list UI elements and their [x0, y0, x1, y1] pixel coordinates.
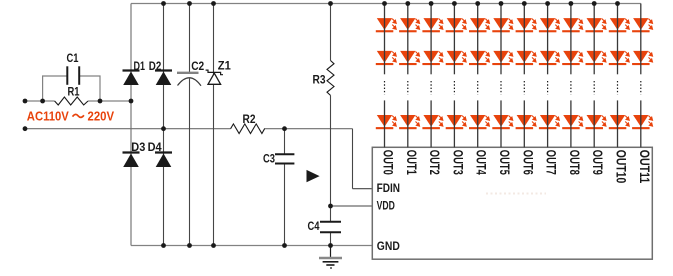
svg-text:Z1: Z1	[218, 61, 232, 73]
svg-text:OUT10: OUT10	[614, 150, 629, 184]
junction top-D2	[161, 1, 166, 6]
LED D12c col 11 row 2	[632, 115, 652, 129]
junction top LED col 3	[452, 1, 457, 6]
LED D11b col 10 row 1	[609, 51, 629, 65]
svg-text:OUT11: OUT11	[637, 150, 652, 184]
capacitor C4	[320, 221, 341, 223]
LED D1b col 0 row 1	[376, 51, 396, 65]
svg-text:AC110V: AC110V	[27, 109, 69, 124]
wire C1 parallel branch	[43, 76, 100, 101]
LED D10b col 9 row 1	[586, 51, 606, 65]
LED column 10 wire	[617, 4, 619, 75]
LED D10c col 9 row 2	[586, 115, 606, 129]
LED column 3 wire	[453, 4, 455, 75]
terminal AC lower	[23, 126, 28, 131]
svg-text:OUT9: OUT9	[590, 150, 605, 175]
LED D7b col 6 row 1	[516, 51, 536, 65]
LED D2c col 1 row 2	[399, 115, 419, 129]
wire bottom bus / GND net	[131, 245, 372, 247]
LED D1c col 0 row 2	[376, 115, 396, 129]
IC U1 body	[372, 147, 652, 259]
LED column 9 wire	[593, 4, 595, 75]
terminal AC upper	[23, 99, 28, 104]
LED D11a col 10 row 0	[609, 18, 629, 32]
svg-text:OUT3: OUT3	[450, 150, 465, 175]
svg-text:OUT7: OUT7	[544, 150, 559, 175]
wire D2-D4 branch	[163, 4, 165, 246]
LED D5a col 4 row 0	[469, 18, 489, 32]
wire C2 branch	[189, 4, 191, 73]
wire C3 branch	[284, 129, 286, 155]
marker arrow (right-pointing triangle)	[307, 170, 320, 182]
junction top LED col 1	[405, 1, 410, 6]
diode D3	[123, 151, 140, 153]
svg-text:R3: R3	[313, 75, 326, 87]
LED D1a col 0 row 0	[376, 18, 396, 32]
junction top-Z1	[211, 1, 216, 6]
LED D9c col 8 row 2	[562, 115, 582, 129]
label tilde	[73, 114, 84, 117]
capacitor C1	[66, 66, 68, 85]
svg-text:GND: GND	[377, 239, 400, 253]
junction top-R3	[328, 1, 333, 6]
junction top LED col 7	[545, 1, 550, 6]
svg-text:R1: R1	[68, 87, 80, 99]
zener diode Z1	[206, 70, 223, 75]
svg-text:C2: C2	[191, 61, 204, 73]
junction top LED col 5	[499, 1, 504, 6]
svg-text:D3: D3	[131, 142, 145, 154]
junction top LED col 8	[569, 1, 574, 6]
LED column 5 wire	[500, 4, 502, 75]
junction top LED col 2	[429, 1, 434, 6]
LED D5b col 4 row 1	[469, 51, 489, 65]
wire left bus	[130, 4, 132, 246]
junction bottom-GND	[328, 243, 333, 248]
svg-text:C3: C3	[263, 154, 275, 166]
LED column 6 wire	[523, 4, 525, 75]
LED D12a col 11 row 0	[632, 18, 652, 32]
LED D6c col 5 row 2	[492, 115, 512, 129]
LED D10a col 9 row 0	[586, 18, 606, 32]
svg-text:C4: C4	[308, 221, 320, 233]
LED D11c col 10 row 2	[609, 115, 629, 129]
capacitor C3	[275, 153, 294, 155]
junction bottom-Z1	[211, 243, 216, 248]
resistor R3	[327, 61, 334, 96]
svg-text:OUT0: OUT0	[381, 150, 396, 175]
junction top LED col 0	[382, 1, 387, 6]
wire AC input lower	[25, 128, 231, 130]
LED D9b col 8 row 1	[562, 51, 582, 65]
LED D6b col 5 row 1	[492, 51, 512, 65]
LED D6a col 5 row 0	[492, 18, 512, 32]
junction lower-D2D4	[161, 126, 166, 131]
resistor R2	[231, 124, 265, 134]
wire FDIN to pin	[353, 188, 373, 190]
wire FDIN vertical	[352, 129, 354, 189]
svg-text:VDD: VDD	[377, 199, 395, 213]
LED D7a col 6 row 0	[516, 18, 536, 32]
LED D5c col 4 row 2	[469, 115, 489, 129]
junction top LED col 9	[592, 1, 597, 6]
LED D4a col 3 row 0	[446, 18, 466, 32]
LED D3c col 2 row 2	[422, 115, 442, 129]
svg-text:OUT1: OUT1	[404, 150, 419, 175]
svg-text:R2: R2	[243, 114, 256, 126]
LED column 4 wire	[477, 4, 479, 75]
junction VDD	[328, 204, 333, 209]
svg-text:OUT6: OUT6	[520, 150, 535, 175]
junction top LED col 10	[615, 1, 620, 6]
svg-text:D2: D2	[149, 61, 162, 73]
diode D2	[155, 69, 172, 71]
wire VDD	[331, 205, 373, 207]
svg-text:D4: D4	[148, 142, 163, 154]
LED D3a col 2 row 0	[422, 18, 442, 32]
LED D12b col 11 row 1	[632, 51, 652, 65]
junction R1C1 left	[40, 99, 45, 104]
svg-text:D1: D1	[134, 61, 146, 73]
LED D2b col 1 row 1	[399, 51, 419, 65]
junction lower-C3	[282, 126, 287, 131]
wire AC input upper	[25, 100, 55, 102]
LED column 8 wire	[570, 4, 572, 75]
diode D1	[123, 69, 140, 71]
wire Z1 branch	[213, 4, 215, 246]
svg-text:FDIN: FDIN	[377, 181, 400, 195]
LED column 7 wire	[547, 4, 549, 75]
junction bottom-D4	[161, 243, 166, 248]
svg-text:OUT5: OUT5	[497, 150, 512, 175]
LED column 0 wire	[384, 4, 386, 75]
svg-text:OUT8: OUT8	[567, 150, 582, 175]
junction upper-leftbus	[129, 99, 134, 104]
LED D8b col 7 row 1	[539, 51, 559, 65]
svg-text:OUT4: OUT4	[474, 150, 489, 175]
LED D4c col 3 row 2	[446, 115, 466, 129]
capacitor C2	[177, 72, 199, 74]
svg-text:OUT2: OUT2	[427, 150, 442, 175]
wire R3-C4 branch	[330, 4, 332, 61]
junction top-C2	[187, 1, 192, 6]
LED column 11 wire	[640, 4, 642, 75]
LED D3b col 2 row 1	[422, 51, 442, 65]
junction R1C1 right	[98, 99, 103, 104]
ground	[330, 246, 332, 258]
junction bottom-C2	[187, 243, 192, 248]
LED column 1 wire	[407, 4, 409, 75]
junction top LED col 4	[475, 1, 480, 6]
svg-text:220V: 220V	[88, 109, 115, 124]
diode D4	[155, 151, 172, 153]
svg-text:C1: C1	[67, 53, 79, 65]
resistor R1	[55, 97, 88, 105]
LED D8c col 7 row 2	[539, 115, 559, 129]
wire top bus	[131, 3, 641, 5]
LED column 2 wire	[430, 4, 432, 75]
LED D4b col 3 row 1	[446, 51, 466, 65]
junction top LED col 6	[522, 1, 527, 6]
LED D9a col 8 row 0	[562, 18, 582, 32]
LED D7c col 6 row 2	[516, 115, 536, 129]
LED D8a col 7 row 0	[539, 18, 559, 32]
LED D2a col 1 row 0	[399, 18, 419, 32]
faint watermark	[486, 193, 546, 195]
junction bottom-C3	[282, 243, 287, 248]
